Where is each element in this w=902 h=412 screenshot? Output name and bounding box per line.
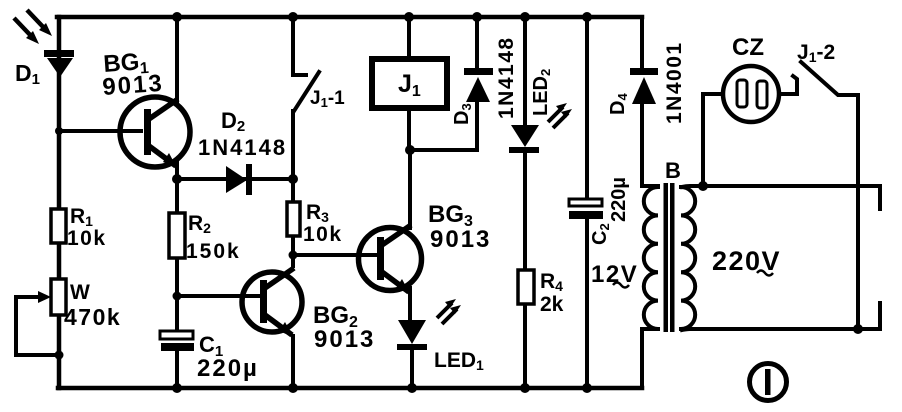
- svg-text:D1: D1: [15, 60, 40, 88]
- svg-text:D4: D4: [607, 93, 630, 115]
- svg-text:D2: D2: [221, 108, 245, 135]
- svg-text:10k: 10k: [67, 227, 107, 250]
- svg-text:R1: R1: [70, 205, 93, 229]
- svg-text:J1-2: J1-2: [797, 41, 835, 65]
- svg-text:220V: 220V: [712, 246, 781, 276]
- svg-text:470k: 470k: [64, 304, 121, 330]
- svg-text:9013: 9013: [102, 70, 165, 101]
- svg-text:J1-1: J1-1: [310, 88, 345, 110]
- svg-text:10k: 10k: [303, 223, 343, 246]
- svg-text:1N4148: 1N4148: [198, 135, 287, 160]
- svg-text:150k: 150k: [186, 240, 241, 263]
- svg-text:220µ: 220µ: [608, 177, 630, 222]
- svg-text:LED1: LED1: [434, 349, 484, 373]
- svg-text:CZ: CZ: [732, 34, 764, 61]
- svg-text:R2: R2: [188, 212, 211, 236]
- svg-text:9013: 9013: [314, 326, 375, 353]
- svg-text:D3: D3: [451, 103, 474, 125]
- svg-text:R4: R4: [540, 270, 563, 294]
- svg-text:1N4148: 1N4148: [495, 36, 518, 119]
- svg-text:C2: C2: [589, 223, 612, 245]
- svg-text:220µ: 220µ: [197, 355, 259, 382]
- svg-text:W: W: [70, 281, 90, 304]
- svg-text:B: B: [665, 158, 681, 183]
- svg-text:R3: R3: [306, 201, 329, 225]
- svg-text:LED2: LED2: [530, 69, 553, 116]
- svg-text:1N4001: 1N4001: [663, 41, 686, 124]
- svg-text:2k: 2k: [540, 293, 564, 316]
- svg-text:9013: 9013: [430, 226, 491, 253]
